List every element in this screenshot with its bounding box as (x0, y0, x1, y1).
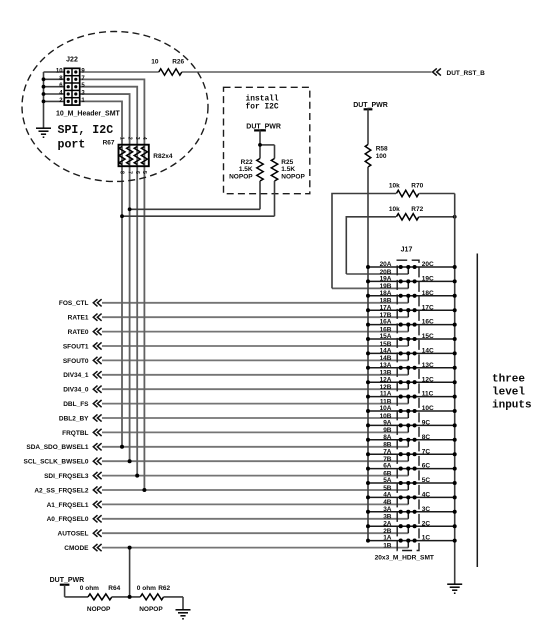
svg-text:18A: 18A (380, 290, 392, 297)
svg-text:17C: 17C (422, 304, 434, 311)
svg-text:1B: 1B (383, 542, 392, 549)
svg-text:9A: 9A (383, 420, 392, 427)
svg-text:12A: 12A (380, 376, 392, 383)
svg-text:8A: 8A (383, 434, 392, 441)
svg-text:10k: 10k (389, 183, 400, 190)
svg-text:DUT_PWR: DUT_PWR (246, 123, 281, 130)
svg-text:19A: 19A (380, 276, 392, 283)
svg-text:three: three (492, 374, 525, 386)
svg-text:9C: 9C (422, 420, 431, 427)
svg-text:FRQTBL: FRQTBL (62, 430, 88, 437)
svg-text:RATE1: RATE1 (68, 315, 89, 322)
svg-text:5: 5 (141, 171, 147, 174)
svg-text:R22: R22 (241, 159, 253, 166)
svg-text:NOPOP: NOPOP (229, 174, 253, 181)
svg-text:6A: 6A (383, 463, 392, 470)
svg-text:3C: 3C (422, 506, 431, 513)
svg-text:11A: 11A (380, 391, 392, 398)
svg-text:1A: 1A (383, 535, 392, 542)
svg-text:18C: 18C (422, 290, 434, 297)
svg-text:20A: 20A (380, 261, 392, 268)
svg-text:R26: R26 (172, 58, 184, 65)
svg-text:6C: 6C (422, 463, 431, 470)
svg-text:port: port (58, 138, 86, 151)
svg-text:SPI, I2C: SPI, I2C (58, 124, 114, 137)
svg-text:0 ohm: 0 ohm (80, 585, 99, 592)
svg-text:10: 10 (151, 58, 159, 65)
svg-text:15C: 15C (422, 333, 434, 340)
svg-text:3: 3 (134, 137, 140, 140)
svg-text:7C: 7C (422, 448, 431, 455)
svg-text:10k: 10k (389, 206, 400, 213)
svg-text:SCL_SCLK_BWSEL0: SCL_SCLK_BWSEL0 (23, 459, 88, 466)
svg-text:10A: 10A (380, 405, 392, 412)
svg-text:14A: 14A (380, 348, 392, 355)
svg-text:SFOUT0: SFOUT0 (63, 358, 89, 365)
svg-text:15A: 15A (380, 333, 392, 340)
svg-text:2A: 2A (383, 520, 392, 527)
svg-text:2: 2 (126, 137, 132, 140)
svg-text:A1_FRQSEL1: A1_FRQSEL1 (47, 502, 89, 509)
svg-text:1.5K: 1.5K (281, 166, 295, 173)
svg-text:R70: R70 (411, 183, 423, 190)
svg-text:8: 8 (119, 171, 125, 174)
svg-text:16A: 16A (380, 319, 392, 326)
svg-text:20x3_M_HDR_SMT: 20x3_M_HDR_SMT (375, 555, 434, 562)
svg-text:13C: 13C (422, 362, 434, 369)
svg-text:SDI_FRQSEL3: SDI_FRQSEL3 (44, 473, 89, 480)
svg-text:10C: 10C (422, 405, 434, 412)
svg-text:R64: R64 (108, 585, 120, 592)
svg-text:1.5K: 1.5K (239, 166, 253, 173)
svg-text:5A: 5A (383, 477, 392, 484)
svg-text:RATE0: RATE0 (68, 329, 89, 336)
svg-text:R62: R62 (158, 585, 170, 592)
svg-text:DIV34_0: DIV34_0 (63, 387, 89, 394)
svg-text:2C: 2C (422, 520, 431, 527)
svg-text:R58: R58 (376, 146, 388, 153)
svg-text:5C: 5C (422, 477, 431, 484)
svg-text:8C: 8C (422, 434, 431, 441)
svg-text:R82x4: R82x4 (153, 153, 173, 160)
svg-text:4A: 4A (383, 492, 392, 499)
svg-text:R72: R72 (411, 206, 423, 213)
svg-text:13A: 13A (380, 362, 392, 369)
svg-text:FOS_CTL: FOS_CTL (59, 300, 89, 307)
svg-text:DBL2_BY: DBL2_BY (59, 415, 89, 422)
svg-text:AUTOSEL: AUTOSEL (58, 531, 89, 538)
svg-text:4: 4 (141, 137, 147, 140)
svg-text:16C: 16C (422, 319, 434, 326)
svg-text:inputs: inputs (492, 400, 532, 412)
svg-text:1: 1 (119, 137, 125, 140)
svg-text:0 ohm: 0 ohm (137, 585, 156, 592)
svg-text:R67: R67 (103, 139, 115, 146)
svg-text:DUT_RST_B: DUT_RST_B (447, 70, 486, 77)
svg-text:3A: 3A (383, 506, 392, 513)
svg-text:for I2C: for I2C (246, 103, 279, 112)
svg-text:6: 6 (134, 171, 140, 174)
svg-text:DBL_FS: DBL_FS (63, 401, 89, 408)
svg-text:R25: R25 (281, 159, 293, 166)
svg-text:10_M_Header_SMT: 10_M_Header_SMT (56, 110, 121, 117)
svg-text:17A: 17A (380, 304, 392, 311)
svg-text:J22: J22 (66, 57, 78, 64)
svg-text:14C: 14C (422, 348, 434, 355)
svg-text:7: 7 (126, 171, 132, 174)
svg-text:CMODE: CMODE (64, 545, 89, 552)
svg-text:SFOUT1: SFOUT1 (63, 343, 89, 350)
svg-text:12C: 12C (422, 376, 434, 383)
svg-text:A0_FRQSEL0: A0_FRQSEL0 (47, 516, 89, 523)
svg-text:SDA_SDO_BWSEL1: SDA_SDO_BWSEL1 (26, 444, 89, 451)
svg-text:DIV34_1: DIV34_1 (63, 372, 89, 379)
svg-text:19C: 19C (422, 276, 434, 283)
svg-text:NOPOP: NOPOP (87, 606, 111, 613)
svg-text:7A: 7A (383, 448, 392, 455)
svg-text:10: 10 (56, 68, 63, 74)
svg-text:DUT_PWR: DUT_PWR (353, 102, 388, 109)
svg-text:11C: 11C (422, 391, 434, 398)
svg-text:1C: 1C (422, 535, 431, 542)
svg-text:A2_SS_FRQSEL2: A2_SS_FRQSEL2 (34, 487, 89, 494)
svg-text:DUT_PWR: DUT_PWR (50, 577, 85, 584)
svg-text:J17: J17 (401, 246, 413, 253)
svg-text:NOPOP: NOPOP (281, 174, 305, 181)
svg-text:level: level (492, 387, 525, 399)
svg-text:4C: 4C (422, 492, 431, 499)
svg-text:20C: 20C (422, 261, 434, 268)
svg-text:NOPOP: NOPOP (139, 606, 163, 613)
svg-text:100: 100 (376, 153, 387, 160)
